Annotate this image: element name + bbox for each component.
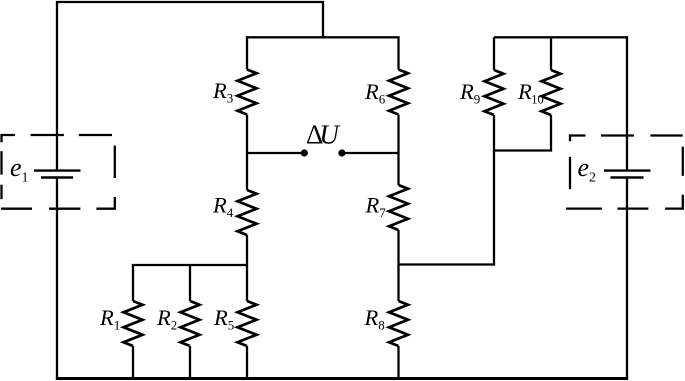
- box e2 dashed: [566, 136, 683, 209]
- wire left rail up, across top, down to top bus: [57, 2, 323, 171]
- resistor R2: [181, 301, 200, 346]
- resistor R7: [389, 185, 408, 230]
- wire left rail lower segment: [56, 178, 58, 379]
- svg-text:R9: R9: [459, 79, 480, 107]
- node dU left terminal: [301, 149, 308, 156]
- wire top bus R9-e2 and e2 branch upper: [494, 37, 627, 170]
- wire dU right lead: [342, 152, 399, 154]
- wire R8 to bottom rail: [397, 346, 399, 379]
- wire R1 to bottom rail: [132, 346, 134, 379]
- battery e1 long plate: [34, 169, 81, 171]
- svg-text:R8: R8: [364, 305, 385, 333]
- svg-text:R3: R3: [212, 78, 233, 106]
- wire R4 to R5 through bus2 node: [246, 235, 248, 301]
- battery e2 short plate: [611, 176, 644, 179]
- wire R3 to R4 through dU node: [246, 115, 248, 191]
- svg-text:R7: R7: [365, 193, 387, 221]
- svg-text:R6: R6: [364, 79, 386, 107]
- wire R10 bottom drop and across to R9 branch: [494, 115, 551, 151]
- wire e2 branch lower: [626, 178, 628, 379]
- resistor R5: [238, 301, 257, 346]
- svg-text:R4: R4: [212, 193, 234, 221]
- wire bus2 R1-R2-R5 with drop to R1: [133, 265, 247, 301]
- svg-text:R1: R1: [99, 305, 120, 333]
- resistor R6: [389, 70, 408, 115]
- wire bus3 to R10: [550, 37, 552, 70]
- resistor R3: [238, 70, 257, 115]
- wire bottom rail: [56, 377, 628, 380]
- battery e1 short plate: [41, 176, 73, 179]
- wire R9 bottom down and left to R7/R8 node: [399, 115, 495, 265]
- wire R5 to bottom rail: [246, 346, 248, 379]
- wire R7 to R8 through node: [397, 230, 399, 301]
- wire dU left lead: [247, 152, 304, 154]
- svg-text:R5: R5: [213, 305, 234, 333]
- node dU right terminal: [338, 149, 345, 156]
- resistor R10: [542, 70, 561, 115]
- resistor R1: [124, 301, 143, 346]
- svg-text:ΔU: ΔU: [306, 120, 340, 150]
- wire bus3 to R9: [493, 37, 495, 70]
- resistor R9: [485, 70, 504, 115]
- svg-text:e2: e2: [578, 153, 597, 186]
- resistor R8: [389, 301, 408, 346]
- wire R2 to bottom rail: [189, 346, 191, 379]
- wire bus2 to R2: [189, 265, 191, 301]
- svg-text:e1: e1: [10, 153, 29, 186]
- wire top bus R3-R6: [247, 37, 399, 69]
- battery e2 long plate: [604, 169, 651, 171]
- resistor R4: [238, 190, 257, 235]
- svg-text:R2: R2: [156, 305, 177, 333]
- svg-text:R10: R10: [517, 79, 544, 107]
- wire R6 to R7 through dU node: [397, 115, 399, 186]
- box e1 dashed: [1, 135, 115, 209]
